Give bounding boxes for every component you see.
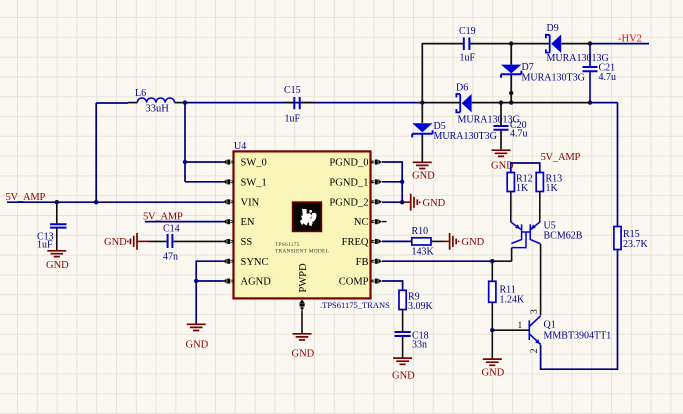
svg-text:1K: 1K	[516, 183, 529, 194]
wire R10 to ground	[431, 240, 444, 242]
ground below D5	[412, 160, 435, 182]
node junction SW_0 tap	[183, 160, 187, 164]
svg-text:GND: GND	[104, 237, 127, 248]
resistor R15	[614, 227, 649, 251]
transistor Q1 MMBT3904TT1	[492, 309, 611, 353]
wire EN	[145, 221, 224, 223]
svg-text:GND: GND	[292, 349, 315, 360]
svg-text:GND: GND	[423, 198, 446, 209]
svg-text:SW_0: SW_0	[241, 158, 267, 169]
svg-text:33uH: 33uH	[146, 104, 170, 115]
wire top rail mid segment	[185, 102, 313, 104]
svg-text:4.7u: 4.7u	[599, 72, 617, 83]
wire FB to U5 bases	[492, 248, 511, 262]
svg-text:D9: D9	[547, 23, 559, 34]
svg-text:1.24K: 1.24K	[500, 295, 526, 306]
svg-text:3: 3	[530, 309, 540, 314]
capacitor C13	[37, 202, 67, 250]
svg-text:SYNC: SYNC	[241, 257, 269, 268]
svg-text:47n: 47n	[163, 252, 178, 263]
node junction C13 tap	[55, 200, 59, 204]
svg-text:AGND: AGND	[241, 277, 272, 288]
resistor R11	[489, 261, 525, 358]
capacitor C19	[459, 26, 476, 64]
svg-text:FB: FB	[356, 257, 369, 268]
svg-text:3.09K: 3.09K	[408, 301, 434, 312]
svg-text:MMBT3904TT1: MMBT3904TT1	[544, 331, 612, 342]
svg-text:GND: GND	[46, 260, 69, 271]
wire SW riser	[185, 103, 224, 182]
svg-text:C15: C15	[284, 85, 301, 96]
pin glyphs left side	[223, 160, 234, 284]
wire top rail right of C15	[284, 102, 422, 104]
ground below SYNC	[186, 324, 209, 350]
node junction C19/D7	[509, 41, 513, 45]
node junction C20 tap	[499, 100, 503, 104]
ground right of R10	[444, 233, 485, 250]
svg-text:MURA130T3G: MURA130T3G	[434, 131, 497, 142]
svg-text:GND: GND	[462, 237, 485, 248]
node junction AGND tap	[194, 279, 198, 283]
svg-text:PGND_0: PGND_0	[329, 158, 368, 169]
svg-text:D6: D6	[456, 83, 468, 94]
wire R15 bottom loop to Q1 emitter	[541, 250, 618, 370]
capacitor C18	[395, 310, 429, 358]
wire 5V_AMP tie R12/R13	[511, 163, 540, 173]
svg-text:1uF: 1uF	[37, 239, 53, 250]
pin glyph PWPD bottom	[299, 299, 304, 310]
ground right of PGND_2	[404, 194, 446, 211]
svg-text:-HV2: -HV2	[618, 34, 642, 45]
svg-text:SW_1: SW_1	[241, 177, 267, 188]
svg-text:1K: 1K	[546, 183, 559, 194]
wire -HV2 stub	[590, 43, 649, 45]
svg-text:PWPD: PWPD	[298, 263, 309, 293]
wire charge pump cluster	[422, 44, 590, 160]
TI logo	[293, 202, 322, 231]
wire FB net	[382, 260, 492, 262]
svg-text:33n: 33n	[412, 340, 427, 351]
svg-text:5V_AMP: 5V_AMP	[6, 192, 46, 203]
inductor L6	[128, 88, 185, 115]
capacitor C14	[149, 224, 224, 263]
wire right drop to R15	[617, 103, 619, 227]
svg-text:VIN: VIN	[241, 197, 260, 208]
svg-text:2: 2	[530, 348, 540, 353]
node junction C21 top	[588, 41, 592, 45]
diode D6 MURA13013G	[456, 83, 520, 126]
pin SW_0	[241, 158, 267, 169]
wire R13 to U5 right emitter	[539, 192, 541, 223]
resistor R10	[412, 226, 435, 258]
diode D9 MURA13013G	[546, 23, 609, 64]
pin NC stub	[382, 221, 387, 223]
svg-text:L6: L6	[135, 88, 146, 99]
ground below C20	[491, 150, 514, 171]
node junction vertical riser tap	[94, 200, 98, 204]
pin glyphs right side	[371, 160, 382, 284]
wire PGND bus	[382, 162, 404, 202]
ground left of C14	[104, 233, 149, 250]
node junction D7 bottom rail	[509, 100, 513, 104]
svg-text:PGND_2: PGND_2	[329, 197, 368, 208]
node junction FB/R11	[490, 259, 494, 263]
svg-text:4.7u: 4.7u	[510, 129, 528, 140]
svg-text:TRANSIENT MODEL: TRANSIENT MODEL	[275, 249, 329, 255]
svg-text:1: 1	[518, 321, 523, 331]
svg-text:BCM62B: BCM62B	[544, 231, 583, 242]
wire vertical from top rail to 5V_AMP rail	[95, 103, 97, 202]
resistor R9	[399, 290, 434, 312]
node junction PGND_2	[400, 200, 404, 204]
wire FREQ to R10	[382, 240, 412, 242]
capacitor C15	[284, 85, 313, 125]
wire COMP to R9	[382, 281, 403, 290]
svg-text:23.7K: 23.7K	[623, 239, 649, 250]
wire PWPD to ground	[301, 310, 303, 333]
resistor R12	[507, 173, 532, 195]
wire U5 right collector to Q1 collector	[539, 244, 542, 316]
svg-text:C14: C14	[163, 224, 180, 235]
svg-text:5V_AMP: 5V_AMP	[541, 152, 581, 163]
svg-text:R10: R10	[412, 226, 429, 237]
svg-text:COMP: COMP	[339, 277, 369, 288]
svg-text:Q1: Q1	[544, 320, 556, 331]
svg-text:GND: GND	[186, 340, 209, 351]
ground below PWPD	[292, 334, 315, 360]
ground below C13	[46, 251, 69, 271]
svg-text:D7: D7	[522, 62, 534, 73]
node junction C19 riser rail	[420, 100, 424, 104]
wire R12 to U5 left emitter	[510, 192, 512, 223]
svg-text:SS: SS	[241, 237, 253, 248]
node junction L6 output	[183, 100, 187, 104]
svg-text:EN: EN	[241, 217, 255, 228]
capacitor C21	[583, 44, 617, 103]
svg-text:FREQ: FREQ	[342, 237, 369, 248]
svg-text:C19: C19	[459, 26, 476, 37]
IC U4 body	[234, 141, 371, 299]
wire SYNC/AGND to ground	[196, 261, 224, 323]
svg-text:143K: 143K	[412, 247, 435, 258]
svg-text:.TPS61175_TRANS: .TPS61175_TRANS	[320, 300, 390, 310]
node junction C21 bottom	[588, 100, 592, 104]
svg-text:1uF: 1uF	[460, 53, 476, 64]
capacitor C20	[494, 120, 528, 140]
svg-text:TPS61175: TPS61175	[275, 242, 300, 248]
diode D7 MURA130T3G	[501, 62, 585, 84]
svg-text:GND: GND	[482, 368, 505, 379]
svg-text:GND: GND	[392, 371, 415, 382]
node junction D7 cathode	[509, 91, 513, 95]
svg-text:GND: GND	[412, 171, 435, 182]
svg-text:PGND_1: PGND_1	[329, 177, 368, 188]
node junction R11/Q1 base	[490, 328, 494, 332]
ground below R11	[482, 359, 505, 378]
wire top rail left segment	[96, 102, 128, 104]
node junction PGND_1	[400, 180, 404, 184]
wire 5V_AMP rail to VIN	[7, 201, 224, 203]
ground below C18	[392, 358, 415, 381]
svg-text:NC: NC	[354, 217, 369, 228]
svg-text:U4: U4	[234, 141, 246, 152]
resistor R13	[536, 173, 562, 195]
svg-text:1uF: 1uF	[285, 114, 301, 125]
transistor pair U5 BCM62B	[511, 221, 583, 248]
diode D5 MURA130T3G	[412, 121, 497, 142]
svg-text:MURA130T3G: MURA130T3G	[522, 73, 585, 84]
